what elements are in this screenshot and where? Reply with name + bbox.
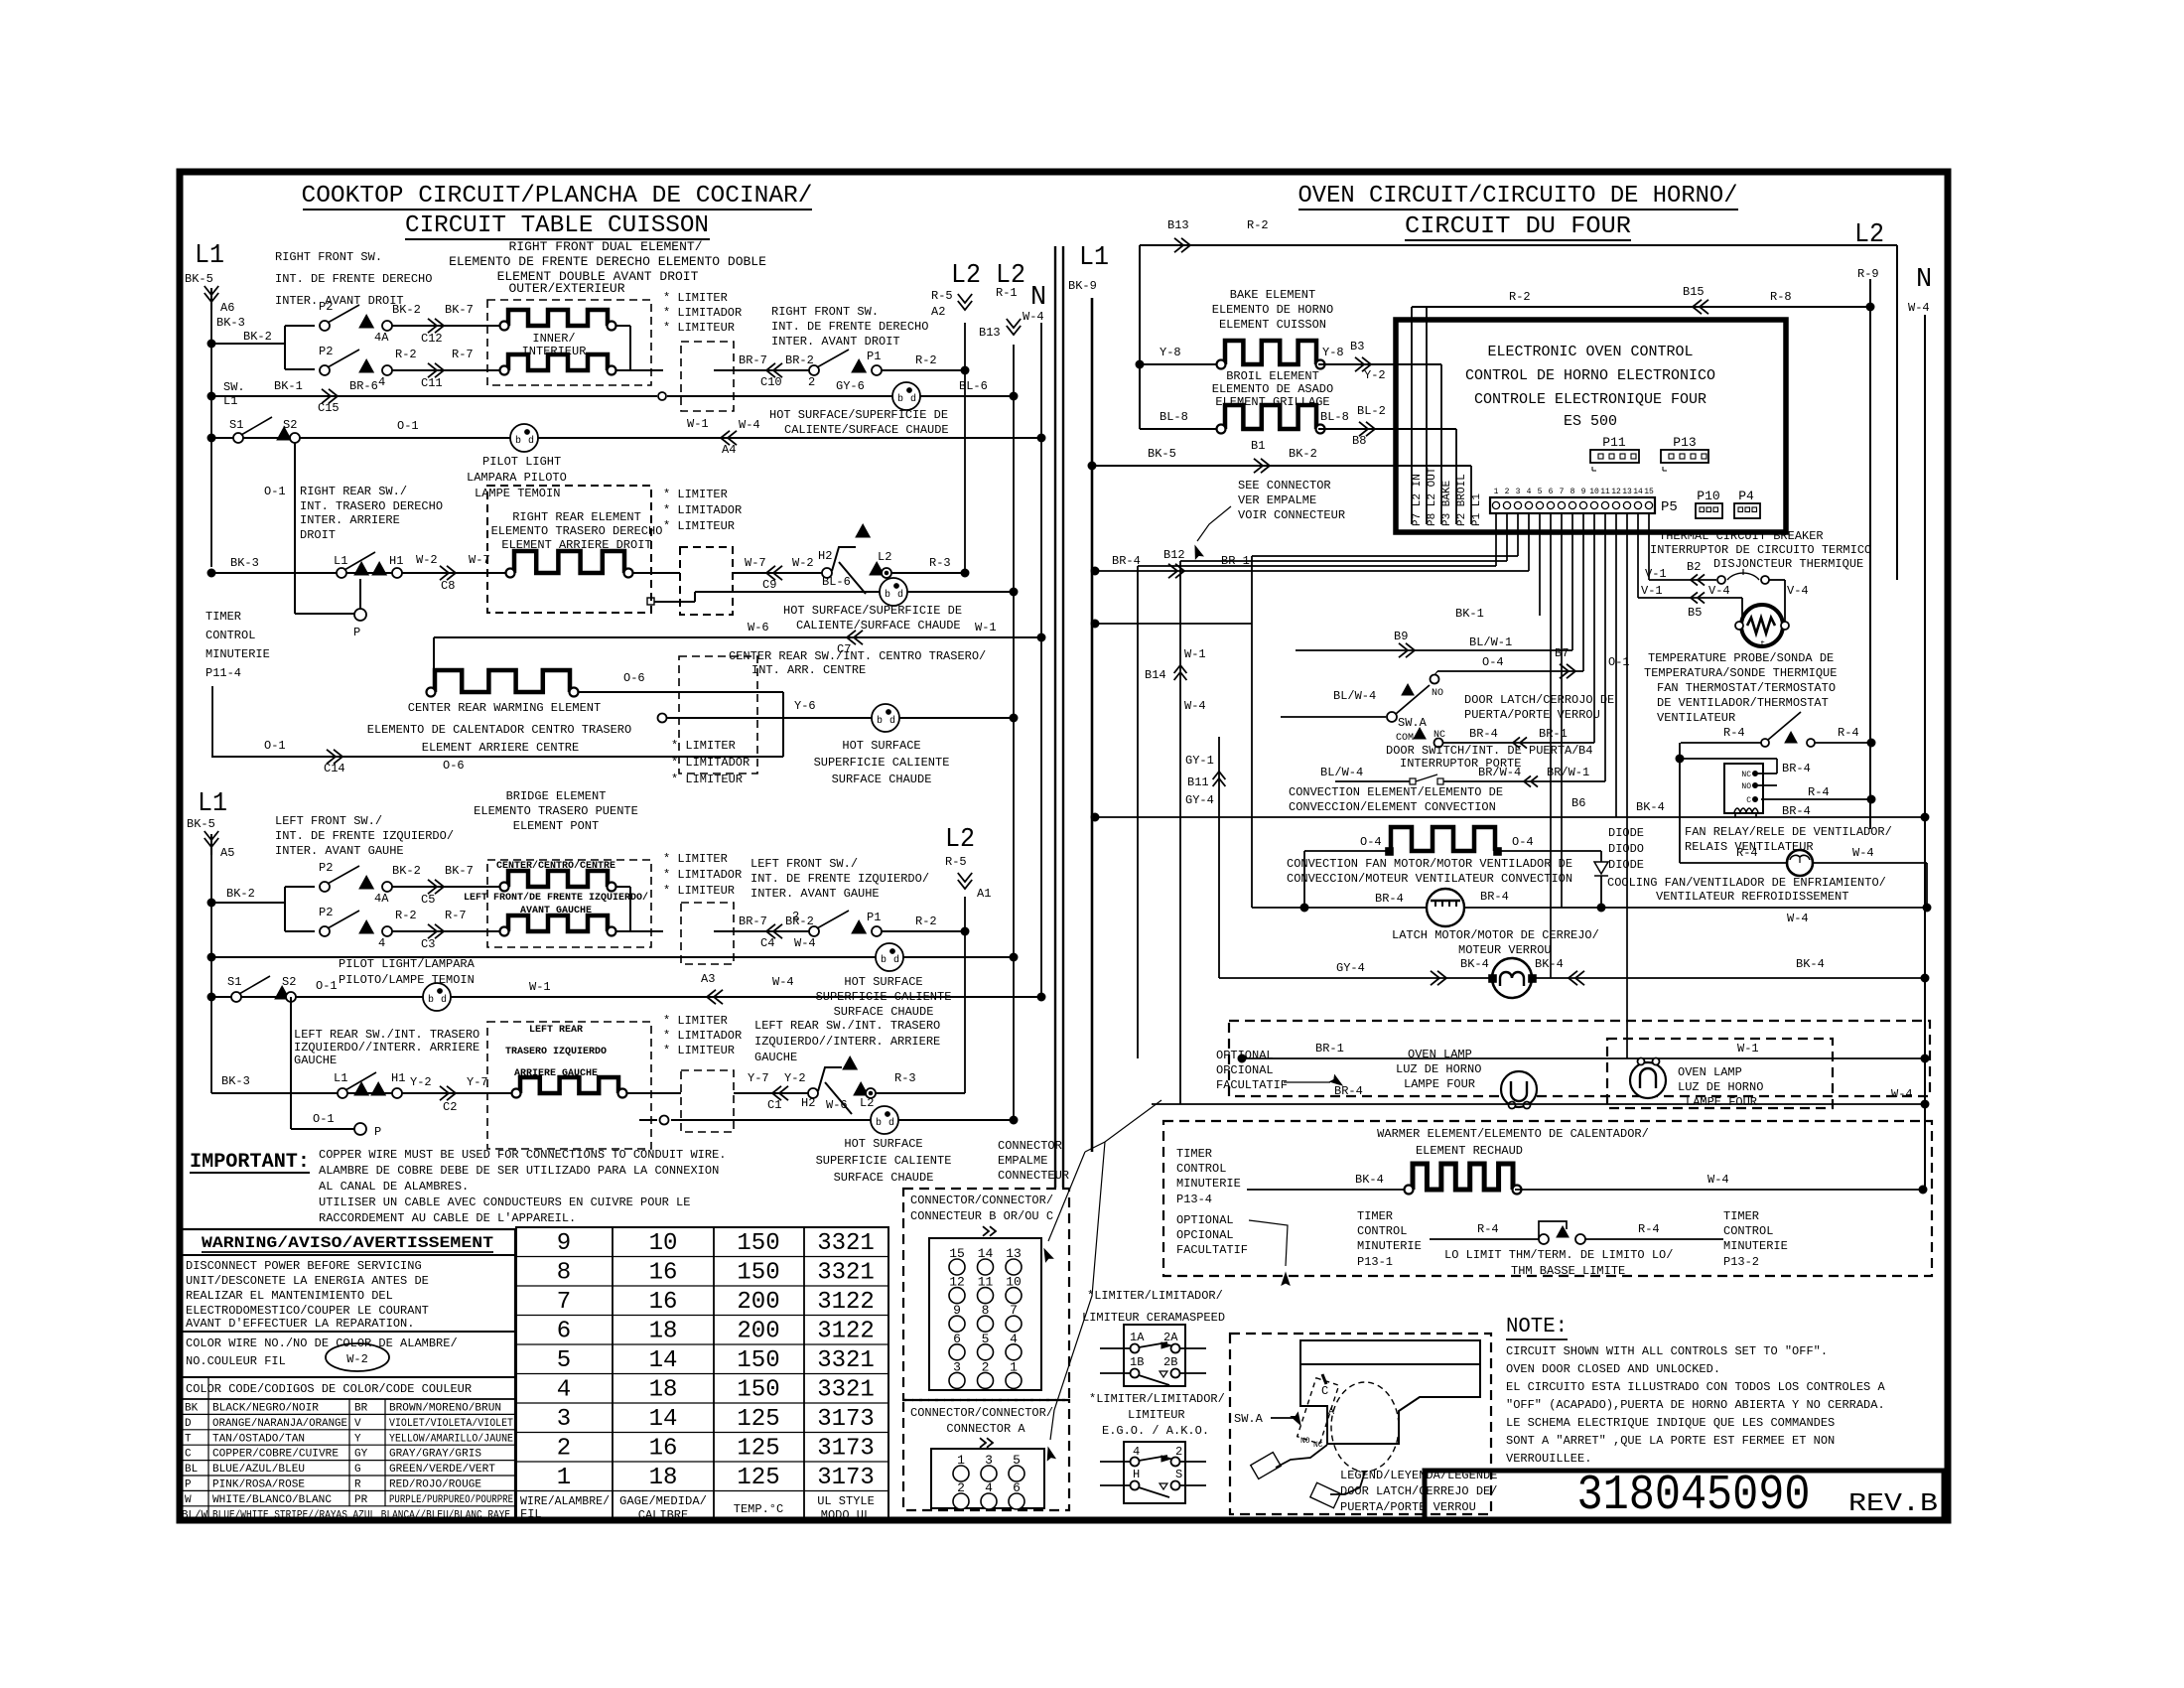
svg-text:V-4: V-4 (1708, 584, 1730, 598)
svg-text:Y-7: Y-7 (467, 1075, 488, 1089)
wire S2 down to P (294, 443, 296, 614)
svg-text:S2: S2 (283, 418, 297, 432)
svg-text:b: b (877, 715, 883, 727)
svg-text:* LIMITER: * LIMITER (663, 1014, 728, 1028)
svg-text:CONNECTEUR B OR/OU C: CONNECTEUR B OR/OU C (910, 1209, 1053, 1223)
wire GY-6 pilot row (658, 392, 666, 400)
svg-text:1A: 1A (1130, 1331, 1145, 1344)
svg-text:GY-4: GY-4 (1185, 793, 1214, 807)
svg-text:ELECTRONIC OVEN CONTROL: ELECTRONIC OVEN CONTROL (1487, 344, 1693, 360)
svg-text:CIRCUIT SHOWN WITH ALL CONTROL: CIRCUIT SHOWN WITH ALL CONTROLS SET TO "… (1506, 1344, 1828, 1358)
svg-text:BR/W-4: BR/W-4 (1478, 766, 1521, 779)
wire R-2 to L2 bus lower (882, 930, 965, 932)
svg-text:4A: 4A (374, 892, 389, 906)
wire lamp1 row W-4 (1152, 1103, 1925, 1105)
svg-text:* LIMITER: * LIMITER (663, 488, 728, 501)
svg-text:BR-1: BR-1 (1315, 1042, 1344, 1055)
svg-text:16: 16 (649, 1289, 678, 1316)
svg-text:* LIMITER: * LIMITER (663, 852, 728, 866)
svg-text:P11: P11 (1602, 435, 1626, 450)
svg-text:OVEN DOOR CLOSED AND UNLOCKED.: OVEN DOOR CLOSED AND UNLOCKED. (1506, 1362, 1720, 1376)
svg-text:5: 5 (1538, 488, 1543, 496)
svg-text:R-9: R-9 (1857, 267, 1879, 281)
svg-text:BK-3: BK-3 (230, 556, 259, 570)
marker S2 lower (275, 986, 289, 999)
svg-text:BK-7: BK-7 (445, 864, 474, 878)
svg-text:BR-4: BR-4 (1469, 727, 1498, 741)
svg-text:3173: 3173 (817, 1436, 875, 1463)
svg-text:MINUTERIE: MINUTERIE (1176, 1177, 1241, 1191)
wire BK-1/BR-6 row (207, 392, 215, 400)
svg-text:* LIMITADOR: * LIMITADOR (663, 1029, 742, 1043)
warning box (180, 1229, 515, 1521)
svg-text:INT. DE FRENTE IZQUIERDO/: INT. DE FRENTE IZQUIERDO/ (751, 872, 929, 886)
svg-text:ELEMENTO TRASERO PUENTE: ELEMENTO TRASERO PUENTE (474, 804, 638, 818)
svg-text:WHITE/BLANCO/BLANC: WHITE/BLANCO/BLANC (212, 1494, 332, 1506)
svg-text:P11-4: P11-4 (205, 666, 241, 680)
svg-text:INT. ARR. CENTRE: INT. ARR. CENTRE (751, 663, 866, 677)
svg-text:COLOR WIRE NO./NO DE COLOR DE: COLOR WIRE NO./NO DE COLOR DE ALAMBRE/ (186, 1336, 458, 1350)
svg-text:A4: A4 (722, 443, 736, 457)
svg-text:GY-4: GY-4 (1336, 961, 1365, 975)
wire to center rear warming element (433, 637, 435, 686)
leader line to connector A (1050, 1142, 1105, 1440)
svg-text:INTERRUPTOR DE CIRCUITO TERMIC: INTERRUPTOR DE CIRCUITO TERMICO (1650, 543, 1871, 557)
convection element (1304, 850, 1389, 852)
svg-text:HOT SURFACE: HOT SURFACE (844, 975, 922, 989)
wire bake row (1136, 360, 1144, 368)
svg-text:S2: S2 (282, 975, 296, 989)
svg-text:EMPALME: EMPALME (998, 1154, 1047, 1168)
svg-text:SURFACE CHAUDE: SURFACE CHAUDE (834, 1005, 934, 1019)
svg-text:14: 14 (649, 1347, 678, 1374)
svg-text:B13: B13 (979, 326, 1001, 340)
svg-text:C4: C4 (760, 936, 774, 950)
svg-text:R-2: R-2 (915, 353, 937, 367)
warmer element (1413, 1164, 1513, 1190)
svg-text:REALIZAR EL MANTENIMIENTO DEL: REALIZAR EL MANTENIMIENTO DEL (186, 1289, 393, 1303)
svg-text:PILOT LIGHT/LAMPARA: PILOT LIGHT/LAMPARA (339, 957, 476, 971)
svg-text:TIMER: TIMER (1357, 1209, 1393, 1223)
svg-text:ES 500: ES 500 (1564, 413, 1617, 430)
wire gauge table (516, 1227, 888, 1520)
breaker second row to probe (1638, 597, 1742, 599)
svg-text:RIGHT FRONT DUAL ELEMENT/: RIGHT FRONT DUAL ELEMENT/ (508, 239, 702, 254)
svg-text:SONT A "ARRET" ,QUE LA PORTE E: SONT A "ARRET" ,QUE LA PORTE EST FERMEE … (1506, 1434, 1835, 1448)
svg-text:15: 15 (1644, 488, 1654, 496)
svg-text:R-2: R-2 (915, 914, 937, 928)
svg-text:BR-4: BR-4 (1782, 804, 1811, 818)
svg-text:Y-8: Y-8 (1322, 346, 1344, 359)
wire S2 down to P lower (290, 997, 292, 1129)
svg-text:O-1: O-1 (313, 1112, 335, 1126)
svg-text:BL-2: BL-2 (1357, 404, 1386, 418)
svg-text:BK-5: BK-5 (187, 817, 215, 831)
svg-text:H2: H2 (818, 549, 832, 563)
svg-text:18: 18 (649, 1465, 678, 1491)
L2 bus cooktop lower (964, 897, 966, 1093)
svg-text:P13: P13 (1673, 435, 1696, 450)
svg-text:W-4: W-4 (1184, 699, 1206, 713)
left rear element dashed box (487, 1022, 651, 1149)
wire latch COM BR-4 row (1442, 742, 1594, 744)
svg-text:BK-5: BK-5 (185, 272, 213, 286)
svg-text:R-4: R-4 (1723, 726, 1745, 740)
door latch wires and plugs (1276, 1445, 1327, 1468)
svg-text:BL-8: BL-8 (1160, 410, 1188, 424)
L1 bus upper wire (210, 310, 212, 567)
svg-text:C5: C5 (421, 893, 435, 907)
svg-text:L1: L1 (223, 394, 237, 408)
svg-text:CONTROL: CONTROL (1723, 1224, 1773, 1238)
N bus cooktop (1040, 323, 1042, 997)
svg-text:R-1: R-1 (996, 286, 1018, 300)
wire W-1 W-4 chevron A4 (721, 431, 730, 445)
svg-text:LEFT FRONT SW./: LEFT FRONT SW./ (275, 814, 382, 828)
svg-text:CENTER REAR WARMING ELEMENT: CENTER REAR WARMING ELEMENT (408, 701, 601, 715)
svg-text:NO: NO (1300, 1437, 1310, 1446)
svg-text:ALAMBRE DE COBRE DEBE DE SER U: ALAMBRE DE COBRE DEBE DE SER UTILIZADO P… (319, 1164, 719, 1178)
svg-text:BK-5: BK-5 (1148, 447, 1176, 461)
svg-text:W-2: W-2 (416, 553, 438, 567)
svg-text:BROIL ELEMENT: BROIL ELEMENT (1226, 369, 1319, 383)
svg-text:OVEN LAMP: OVEN LAMP (1678, 1065, 1742, 1079)
svg-text:VER EMPALME: VER EMPALME (1238, 493, 1316, 507)
svg-text:B1: B1 (1251, 439, 1265, 453)
wire B9 BL/W-1 row (1296, 649, 1572, 651)
svg-text:d: d (441, 994, 447, 1006)
svg-text:O-1: O-1 (264, 739, 286, 753)
svg-text:*LIMITER/LIMITADOR/: *LIMITER/LIMITADOR/ (1087, 1289, 1223, 1303)
svg-text:TEMP.°C: TEMP.°C (734, 1502, 783, 1516)
svg-text:INT. DE FRENTE DERECHO: INT. DE FRENTE DERECHO (275, 272, 432, 286)
fan relay coil (1734, 808, 1758, 812)
svg-text:Y-8: Y-8 (1160, 346, 1181, 359)
svg-text:CALIENTE/SURFACE CHAUDE: CALIENTE/SURFACE CHAUDE (784, 423, 949, 437)
door latch C lever dashed (1297, 1378, 1339, 1444)
svg-text:150: 150 (737, 1230, 779, 1257)
svg-text:O-1: O-1 (1608, 655, 1630, 669)
svg-text:d: d (889, 715, 895, 727)
svg-text:VENTILATEUR REFROIDISSEMENT: VENTILATEUR REFROIDISSEMENT (1656, 890, 1848, 904)
svg-text:* LIMITADOR: * LIMITADOR (671, 756, 750, 770)
svg-text:1B: 1B (1130, 1355, 1144, 1369)
svg-text:INT. DE FRENTE IZQUIERDO/: INT. DE FRENTE IZQUIERDO/ (275, 829, 454, 843)
svg-text:BL/W-4: BL/W-4 (1320, 766, 1363, 779)
svg-text:CONNECTOR A: CONNECTOR A (946, 1422, 1025, 1436)
svg-text:SURFACE CHAUDE: SURFACE CHAUDE (834, 1171, 934, 1185)
element right rear (514, 551, 624, 573)
svg-text:LUZ DE HORNO: LUZ DE HORNO (1396, 1062, 1481, 1076)
door latch body top band (1300, 1340, 1480, 1364)
svg-text:SW.A: SW.A (1398, 716, 1428, 730)
svg-text:NO.COULEUR FIL: NO.COULEUR FIL (186, 1354, 286, 1368)
arrow A6 (205, 286, 218, 295)
svg-text:DIODO: DIODO (1608, 842, 1644, 856)
svg-text:BK-4: BK-4 (1460, 957, 1489, 971)
wire BR-4 B12 BR-1 row (1091, 567, 1099, 575)
svg-text:CONVECTION ELEMENT/ELEMENTO DE: CONVECTION ELEMENT/ELEMENTO DE (1289, 785, 1503, 799)
svg-text:Y: Y (354, 1433, 361, 1445)
svg-text:V-1: V-1 (1645, 567, 1667, 581)
switch H2 left rear (808, 1088, 818, 1098)
svg-text:W-4: W-4 (794, 936, 816, 950)
svg-text:H1: H1 (391, 1071, 405, 1085)
part number box (1425, 1471, 1944, 1520)
svg-text:ELEMENT RECHAUD: ELEMENT RECHAUD (1416, 1144, 1523, 1158)
svg-text:d: d (897, 589, 903, 601)
svg-text:PINK/ROSA/ROSE: PINK/ROSA/ROSE (212, 1479, 305, 1491)
svg-text:DISCONNECT POWER BEFORE SERVIC: DISCONNECT POWER BEFORE SERVICING (186, 1259, 422, 1273)
marker S2 (277, 427, 291, 440)
svg-text:B6: B6 (1571, 796, 1585, 810)
svg-text:O-1: O-1 (316, 979, 338, 993)
svg-text:R-5: R-5 (945, 855, 967, 869)
svg-text:OPTIONAL: OPTIONAL (1216, 1049, 1274, 1062)
svg-text:V-4: V-4 (1787, 584, 1809, 598)
svg-text:* LIMITADOR: * LIMITADOR (663, 503, 742, 517)
svg-text:6: 6 (1549, 488, 1554, 496)
svg-text:9: 9 (1581, 488, 1586, 496)
svg-text:9: 9 (557, 1230, 571, 1257)
switch P1 right front (809, 365, 819, 375)
svg-text:BK-9: BK-9 (1068, 279, 1097, 293)
svg-text:3122: 3122 (817, 1319, 875, 1345)
svg-text:b: b (881, 954, 887, 966)
connector P5 header (1490, 497, 1655, 513)
page border frame (180, 172, 1948, 1520)
svg-text:B14: B14 (1145, 668, 1166, 682)
svg-text:PUERTA/PORTE VERROU: PUERTA/PORTE VERROU (1340, 1500, 1476, 1514)
svg-text:LIMITEUR: LIMITEUR (1128, 1408, 1185, 1422)
svg-text:C15: C15 (318, 401, 340, 415)
wire BK-3 left rear row (211, 1092, 512, 1094)
svg-text:BROWN/MORENO/BRUN: BROWN/MORENO/BRUN (389, 1403, 501, 1415)
svg-text:P13-1: P13-1 (1357, 1255, 1393, 1269)
svg-text:MINUTERIE: MINUTERIE (1357, 1239, 1422, 1253)
svg-text:4A: 4A (374, 331, 389, 345)
svg-text:BL: BL (185, 1464, 198, 1476)
svg-text:GY-6: GY-6 (836, 379, 865, 393)
svg-text:INTER. AVANT DROIT: INTER. AVANT DROIT (275, 294, 404, 308)
fan relay feed wires (1679, 743, 1681, 863)
svg-text:EL CIRCUITO ESTA ILLUSTRADO CO: EL CIRCUITO ESTA ILLUSTRADO CON TODOS LO… (1506, 1380, 1885, 1394)
svg-text:BL/W-1: BL/W-1 (1469, 635, 1512, 649)
svg-text:b: b (897, 393, 903, 405)
svg-text:C10: C10 (760, 375, 782, 389)
svg-text:12: 12 (1611, 488, 1621, 496)
svg-text:DISJONCTEUR THERMIQUE: DISJONCTEUR THERMIQUE (1713, 557, 1863, 571)
svg-text:BR-1: BR-1 (1539, 727, 1568, 741)
wire BK-5 B1 BK-2 row (1088, 462, 1096, 470)
pilot light main top (510, 424, 538, 452)
svg-text:10: 10 (649, 1230, 678, 1257)
svg-text:S1: S1 (227, 975, 241, 989)
limiter EGO box (1124, 1442, 1185, 1503)
svg-text:MINUTERIE: MINUTERIE (205, 647, 270, 661)
svg-text:BR-2: BR-2 (785, 353, 814, 367)
wire W-4 pilot row lower (207, 953, 215, 961)
svg-text:W: W (185, 1494, 192, 1506)
svg-text:B4: B4 (1578, 744, 1592, 758)
svg-text:* LIMITADOR: * LIMITADOR (663, 306, 742, 320)
svg-text:P2: P2 (319, 300, 333, 314)
svg-text:RIGHT FRONT SW.: RIGHT FRONT SW. (275, 250, 382, 264)
svg-text:COLOR CODE/CODIGOS DE COLOR/CO: COLOR CODE/CODIGOS DE COLOR/CODE COULEUR (186, 1382, 472, 1396)
svg-text:BR-1: BR-1 (1221, 554, 1250, 568)
svg-text:SURFACE CHAUDE: SURFACE CHAUDE (832, 773, 932, 786)
R-9 bus (1869, 279, 1871, 829)
connector A pin block (931, 1449, 1044, 1508)
svg-text:B11: B11 (1187, 775, 1209, 789)
svg-text:P7 L2 IN: P7 L2 IN (1412, 474, 1424, 526)
svg-text:GAUCHE: GAUCHE (754, 1051, 797, 1064)
svg-text:* LIMITEUR: * LIMITEUR (663, 321, 735, 335)
svg-text:B9: B9 (1394, 630, 1408, 643)
fuse P1 (852, 359, 866, 372)
svg-text:C3: C3 (421, 937, 435, 951)
element left rear (520, 1077, 618, 1093)
svg-text:DE VENTILADOR/THERMOSTAT: DE VENTILADOR/THERMOSTAT (1657, 696, 1829, 710)
svg-text:3: 3 (1516, 488, 1521, 496)
fan relay wire labels (1761, 798, 1871, 800)
svg-text:NO: NO (1432, 688, 1443, 699)
svg-text:WARMER ELEMENT/ELEMENTO DE CAL: WARMER ELEMENT/ELEMENTO DE CALENTADOR/ (1377, 1127, 1649, 1141)
svg-text:BK-1: BK-1 (274, 379, 303, 393)
svg-text:P1: P1 (867, 350, 881, 363)
svg-text:BR: BR (354, 1403, 368, 1415)
svg-text:BK-3: BK-3 (216, 316, 245, 330)
svg-text:P1 L1: P1 L1 (1471, 493, 1483, 526)
right rear element dashed box (487, 486, 651, 613)
svg-text:CONNECTOR: CONNECTOR (998, 1139, 1062, 1153)
latch motor (1492, 958, 1532, 998)
svg-text:BLUE/AZUL/BLEU: BLUE/AZUL/BLEU (212, 1464, 305, 1476)
svg-text:4: 4 (378, 375, 385, 389)
svg-text:W-4: W-4 (1908, 301, 1930, 315)
svg-text:* LIMITER: * LIMITER (663, 291, 728, 305)
svg-text:*LIMITER/LIMITADOR/: *LIMITER/LIMITADOR/ (1089, 1392, 1225, 1406)
pilot light right rear (880, 578, 907, 606)
svg-text:BK-3: BK-3 (221, 1074, 250, 1088)
bake element (1225, 341, 1316, 364)
svg-text:BL-6: BL-6 (959, 379, 988, 393)
wire L2 top (1140, 244, 1897, 246)
svg-text:d: d (893, 954, 899, 966)
svg-text:GY-1: GY-1 (1185, 754, 1214, 768)
bridge element dashed box (487, 860, 651, 947)
svg-text:W-7: W-7 (745, 556, 766, 570)
svg-text:P13-2: P13-2 (1723, 1255, 1759, 1269)
svg-text:R-4: R-4 (1736, 846, 1758, 860)
svg-text:BL-6: BL-6 (822, 575, 851, 589)
color wire no box (180, 1331, 515, 1333)
svg-text:A1: A1 (977, 887, 991, 901)
svg-text:11: 11 (1600, 488, 1610, 496)
oven lamp 2 dashed box (1607, 1039, 1833, 1108)
svg-text:BL-8: BL-8 (1320, 410, 1349, 424)
svg-text:TIMER: TIMER (205, 610, 241, 624)
svg-text:L1: L1 (198, 789, 227, 819)
svg-text:2: 2 (1505, 488, 1510, 496)
svg-text:14: 14 (1633, 488, 1643, 496)
svg-text:A: A (1328, 1407, 1334, 1418)
temperature probe symbol (1741, 605, 1783, 646)
svg-text:H1: H1 (389, 554, 403, 568)
svg-text:PURPLE/PURPUREO/POURPRE: PURPLE/PURPUREO/POURPRE (389, 1494, 513, 1506)
svg-text:5: 5 (557, 1347, 571, 1374)
svg-text:VIOLET/VIOLETA/VIOLET: VIOLET/VIOLETA/VIOLET (389, 1418, 513, 1430)
svg-text:4: 4 (1527, 488, 1532, 496)
L1 bus lower wire (210, 855, 212, 1093)
svg-text:LE SCHEMA ELECTRIQUE INDIQUE Q: LE SCHEMA ELECTRIQUE INDIQUE QUE LES COM… (1506, 1416, 1835, 1430)
svg-text:CONTROL DE HORNO ELECTRONICO: CONTROL DE HORNO ELECTRONICO (1465, 367, 1715, 384)
svg-text:H: H (1133, 1468, 1140, 1481)
limiter dashed box center rear (679, 656, 757, 774)
svg-text:BK-2: BK-2 (392, 864, 421, 878)
svg-text:DIODE: DIODE (1608, 826, 1644, 840)
svg-text:d: d (910, 393, 916, 405)
fuse marker 4A (359, 315, 373, 328)
svg-text:A6: A6 (220, 301, 234, 315)
svg-text:V-1: V-1 (1641, 584, 1663, 598)
wire door latch NO row (1437, 670, 1583, 672)
fuse marker 4 (359, 359, 373, 372)
svg-text:R-5: R-5 (931, 289, 953, 303)
wire W-6 pilot row lower (639, 1119, 657, 1121)
svg-text:ELEMENTO TRASERO DERECHO: ELEMENTO TRASERO DERECHO (491, 524, 663, 538)
svg-text:R-8: R-8 (1770, 290, 1792, 304)
wire W-7 W-2 H2 row (733, 572, 822, 574)
svg-text:BL/W-4: BL/W-4 (1333, 689, 1376, 703)
svg-text:BR-7: BR-7 (739, 353, 767, 367)
pilot light left front (876, 943, 903, 971)
svg-text:TEMPERATURA/SONDE THERMIQUE: TEMPERATURA/SONDE THERMIQUE (1644, 666, 1837, 680)
svg-text:BK-2: BK-2 (1289, 447, 1317, 461)
svg-text:LEFT FRONT SW./: LEFT FRONT SW./ (751, 857, 858, 871)
door latch cam dashed egg (1331, 1382, 1399, 1472)
wire latch motor row (1219, 977, 1925, 979)
svg-text:ELEMENTO DE HORNO: ELEMENTO DE HORNO (1212, 303, 1333, 317)
svg-text:Y-2: Y-2 (784, 1071, 806, 1085)
svg-text:O-1: O-1 (264, 485, 286, 498)
svg-text:W-4: W-4 (1852, 846, 1874, 860)
svg-text:VENTILATEUR: VENTILATEUR (1657, 711, 1735, 725)
element bridge center (508, 871, 608, 887)
svg-text:AL CANAL DE ALAMBRES.: AL CANAL DE ALAMBRES. (319, 1180, 469, 1194)
svg-text:HOT SURFACE: HOT SURFACE (844, 1137, 922, 1151)
svg-text:A3: A3 (701, 972, 715, 986)
limiter dashed box right front (681, 342, 734, 411)
svg-text:OVEN CIRCUIT/CIRCUITO DE HORNO: OVEN CIRCUIT/CIRCUITO DE HORNO/ (1298, 183, 1738, 210)
svg-text:LAMPE FOUR: LAMPE FOUR (1686, 1095, 1757, 1109)
svg-text:DOOR LATCH/CERREJO DE/: DOOR LATCH/CERREJO DE/ (1340, 1484, 1497, 1498)
warmer element dashed box (1163, 1121, 1932, 1276)
svg-text:BK-2: BK-2 (243, 330, 272, 344)
svg-text:R: R (354, 1479, 361, 1491)
svg-text:W-1: W-1 (1184, 647, 1206, 661)
svg-text:3321: 3321 (817, 1377, 875, 1404)
svg-text:125: 125 (737, 1465, 779, 1491)
wire BL-6 pilot row 2 (647, 598, 654, 605)
wire BR-7/BR-2 switch P1 row (714, 369, 809, 371)
chevron A3 (707, 990, 716, 1004)
svg-text:L2: L2 (945, 825, 975, 855)
broil element (1225, 405, 1316, 429)
wire number ellipse W-2 (326, 1343, 389, 1371)
terminal L2 left rear (866, 1088, 876, 1098)
svg-text:W-1: W-1 (687, 417, 709, 431)
